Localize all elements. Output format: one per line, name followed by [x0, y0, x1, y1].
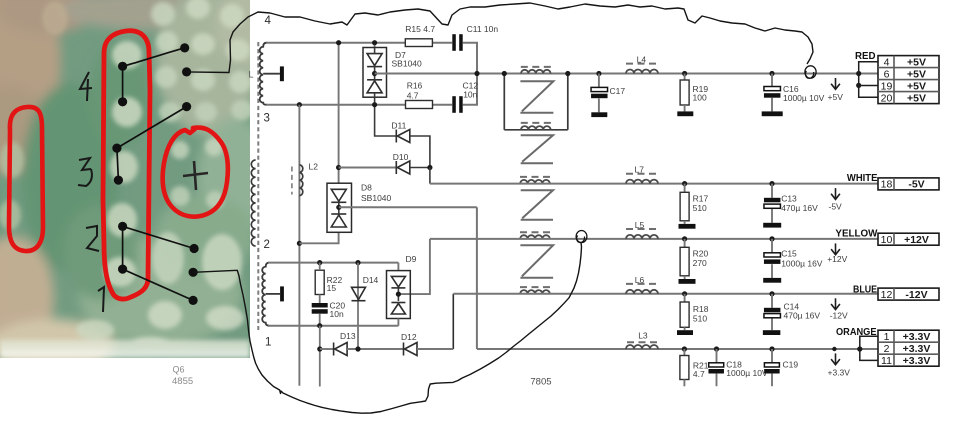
connector table ORANGE +3.3V	[878, 330, 939, 367]
wire C11 to +5V rail	[463, 43, 477, 74]
wire D14 vertical	[357, 263, 359, 349]
diode pair D7 box	[363, 48, 387, 98]
ground C13	[763, 223, 781, 228]
node D10 D11 join	[427, 165, 432, 170]
ground R19	[677, 111, 693, 116]
wire +5V rail	[375, 73, 878, 75]
wire sec4 bottom right (R16 to C12)	[433, 104, 453, 106]
node block left	[502, 71, 507, 76]
node D7 top	[372, 40, 377, 45]
svg-text:+5V: +5V	[907, 68, 926, 80]
capacitor C17	[591, 87, 608, 91]
power flag +12V	[831, 243, 840, 254]
wire L2 vertical	[298, 105, 300, 386]
wire sec4 top	[266, 42, 405, 44]
choke winding block bottom	[521, 126, 551, 130]
wire D9 internal	[397, 289, 399, 302]
wire D9 bottom lead	[397, 319, 399, 326]
wire +3.3V rail	[477, 348, 878, 350]
node D7 center	[372, 71, 377, 76]
svg-text:D10: D10	[393, 152, 409, 162]
svg-text:1000µ 16V: 1000µ 16V	[781, 258, 823, 268]
wire D7 internal	[374, 48, 376, 54]
wire sec2 bottom	[268, 325, 398, 327]
svg-text:4855: 4855	[172, 376, 193, 387]
capacitor C19 (electrolytic)	[764, 363, 779, 367]
freehand pointer ring on +12V rail	[576, 230, 587, 242]
diode D9 top (cathode down)	[391, 276, 405, 288]
core symbol Z1	[520, 81, 553, 113]
inductor L3	[626, 345, 658, 349]
inductor L7	[626, 180, 658, 184]
node R18	[682, 291, 687, 296]
node L2 bottom junction	[297, 241, 302, 246]
capacitor C14 (electrolytic)	[764, 308, 781, 313]
node R19	[682, 71, 687, 76]
red marker: right circled pad	[163, 128, 228, 217]
svg-text:L5: L5	[635, 220, 645, 230]
wire C20 bottom	[319, 314, 321, 326]
diode D11	[396, 130, 410, 143]
node C15	[769, 236, 774, 241]
node D10 tee	[336, 165, 341, 170]
node C19	[769, 346, 774, 351]
node C14	[769, 291, 774, 296]
node R17	[682, 181, 687, 186]
svg-text:11: 11	[881, 355, 892, 367]
svg-text:-5V: -5V	[829, 202, 843, 212]
wire +3.3V feed vertical	[476, 207, 478, 349]
resistor R21	[683, 349, 685, 356]
node D13 anode	[317, 346, 322, 351]
capacitor C20	[312, 303, 328, 308]
ground C15	[763, 278, 781, 283]
capacitor C15 (electrolytic)	[764, 253, 781, 257]
resistor R18	[684, 294, 686, 302]
winding 4 center tap	[263, 73, 280, 75]
svg-text:C19: C19	[783, 359, 799, 369]
wire sec4 top right (R15 to C11)	[432, 42, 452, 44]
svg-text:D13: D13	[340, 331, 356, 341]
core symbol Z4	[520, 245, 553, 277]
resistor R20	[684, 239, 686, 247]
node +5V branch 2	[856, 83, 861, 88]
capacitor C11	[452, 34, 456, 51]
node C17	[596, 71, 601, 76]
svg-text:L6: L6	[635, 275, 645, 285]
svg-text:20: 20	[881, 92, 893, 104]
handwritten digit 2	[86, 226, 99, 251]
wire top to D8 (vertical)	[338, 43, 340, 184]
svg-text:SB1040: SB1040	[361, 193, 392, 203]
wire +3.3V into pins 1 11	[860, 336, 878, 360]
wire D13 left	[320, 348, 334, 350]
svg-text:L4: L4	[637, 55, 647, 65]
black cross mark inside right circle	[183, 161, 208, 190]
svg-text:+12V: +12V	[904, 234, 929, 246]
node block right	[565, 71, 570, 76]
inductor L2	[299, 165, 302, 196]
svg-text:270: 270	[693, 258, 707, 268]
svg-text:4.7: 4.7	[693, 369, 705, 379]
node D13 D12 join	[355, 346, 360, 351]
wire D8 output to +3.3V feed	[339, 206, 477, 208]
handwritten digit 4	[80, 72, 92, 101]
choke winding on -12V rail	[520, 290, 550, 294]
transformer winding section 2-1	[262, 263, 269, 326]
capacitor C17 lead	[598, 74, 600, 88]
power flag +5V	[831, 78, 840, 89]
svg-text:470µ 16V: 470µ 16V	[784, 310, 821, 320]
resistor R19	[684, 74, 686, 81]
handwritten digit 1	[98, 287, 104, 312]
handwritten digit 3	[78, 158, 92, 186]
wire D13 to D12	[347, 348, 403, 350]
diode D14 (cathode down)	[352, 287, 366, 299]
capacitor C15 leads	[771, 239, 773, 253]
choke winding on +5V rail	[521, 70, 551, 74]
red marker: left circled pads	[9, 107, 43, 251]
wire C12 to +5V rail	[463, 74, 477, 105]
diode D12	[404, 343, 418, 356]
inductor L2 core dash	[291, 167, 293, 195]
transformer core (dashed)	[257, 42, 259, 330]
freehand outline from pad to schematic bottom	[193, 242, 581, 413]
svg-text:12: 12	[881, 289, 893, 301]
svg-text:+5V: +5V	[907, 80, 926, 92]
wire -5V rail	[430, 183, 878, 185]
power flag -12V	[831, 298, 840, 309]
core symbol Z2	[521, 135, 553, 163]
svg-text:+3.3V: +3.3V	[903, 355, 931, 367]
svg-text:+5V: +5V	[907, 56, 926, 68]
diode D9 bottom (cathode up)	[391, 303, 405, 315]
svg-text:D14: D14	[363, 275, 379, 285]
node C13	[769, 181, 774, 186]
node +3.3V branch	[857, 346, 862, 351]
wire D9 to +12V rail	[398, 239, 430, 294]
wire D12 to corner	[417, 348, 453, 350]
svg-text:18: 18	[881, 179, 893, 191]
svg-text:R18: R18	[693, 304, 709, 314]
svg-text:4.7: 4.7	[407, 90, 419, 100]
diode D13	[334, 343, 348, 356]
diode D7 bottom (cathode up)	[367, 80, 382, 93]
svg-text:15: 15	[327, 283, 337, 293]
wire D8 internal	[338, 202, 340, 214]
svg-text:510: 510	[693, 314, 707, 324]
node R22 top	[317, 260, 322, 265]
svg-text:10n: 10n	[463, 89, 477, 99]
winding 2 center tap	[266, 293, 280, 295]
svg-text:19: 19	[881, 80, 893, 92]
svg-text:470µ 16V: 470µ 16V	[781, 203, 818, 213]
wire sec4 bottom	[266, 104, 405, 106]
svg-text:2: 2	[264, 239, 270, 251]
svg-text:D8: D8	[361, 182, 372, 192]
node D14 top	[355, 260, 360, 265]
inductor L4	[626, 70, 658, 74]
svg-text:WHITE: WHITE	[847, 172, 878, 184]
svg-text:3: 3	[264, 113, 270, 125]
node D9 center	[396, 292, 401, 297]
svg-text:+5V: +5V	[907, 92, 926, 104]
choke block verticals	[503, 74, 505, 130]
connector table RED +5V	[878, 56, 939, 105]
svg-text:6: 6	[884, 68, 890, 80]
ground C16	[762, 111, 783, 116]
wire to -5V rail	[429, 168, 431, 184]
choke winding on -5V rail	[520, 180, 550, 184]
svg-text:SB1040: SB1040	[392, 58, 423, 68]
svg-text:+3.3V: +3.3V	[903, 331, 931, 343]
wire D10 to corner	[410, 167, 430, 169]
svg-text:L7: L7	[635, 165, 645, 175]
node sec4 bottom to L2	[297, 102, 302, 107]
core symbol Z3	[521, 190, 553, 220]
wire D12 to -12V rail	[452, 294, 454, 349]
solder point dots	[112, 43, 198, 305]
node +3.3V arrow	[832, 347, 836, 351]
power flag -5V	[831, 188, 840, 199]
node C18	[714, 346, 719, 351]
svg-text:D12: D12	[401, 332, 417, 342]
svg-text:C11 10n: C11 10n	[467, 24, 499, 34]
inductor L6	[626, 290, 658, 294]
svg-text:100: 100	[693, 93, 707, 103]
diode D7 top (cathode down)	[367, 54, 382, 67]
svg-text:4: 4	[265, 15, 272, 27]
connector table YELLOW +12V	[878, 233, 939, 246]
node D8 center	[336, 205, 341, 210]
svg-text:+3.3V: +3.3V	[903, 343, 931, 355]
choke block bottom line	[504, 129, 568, 131]
wire D7 top lead	[374, 43, 376, 48]
svg-text:D9: D9	[406, 254, 417, 264]
annotation lines between pads	[117, 48, 194, 301]
resistor R16	[406, 101, 433, 109]
capacitor C16 leads	[771, 74, 773, 87]
node C20 bottom	[317, 323, 322, 328]
svg-text:L: L	[249, 70, 254, 80]
inductor L5	[626, 235, 658, 239]
transformer winding section 4	[260, 43, 267, 105]
ground R17	[679, 224, 696, 229]
svg-text:1: 1	[884, 331, 890, 343]
wire D11 to corner	[410, 136, 430, 168]
node R20	[682, 236, 687, 241]
wire +12V rail	[430, 238, 878, 240]
svg-text:510: 510	[693, 203, 707, 213]
svg-text:-5V: -5V	[908, 179, 924, 191]
ground C17	[591, 112, 607, 117]
svg-text:-12V: -12V	[830, 311, 848, 321]
red marker: center circled pad column	[103, 31, 150, 299]
capacitor C18 leads	[716, 349, 718, 363]
transformer primary winding	[251, 160, 255, 246]
svg-text:YELLOW: YELLOW	[835, 227, 877, 239]
wire D13 tail	[319, 349, 321, 387]
resistor R22	[315, 270, 324, 294]
svg-text:R15 4.7: R15 4.7	[405, 24, 435, 34]
diode D8 bottom (cathode up)	[331, 214, 346, 227]
svg-text:R20: R20	[693, 249, 709, 259]
svg-text:-12V: -12V	[905, 289, 927, 301]
wire C20 to D13	[319, 326, 321, 349]
capacitor C14 leads	[771, 294, 773, 308]
freehand outline from pad to schematic top	[187, 3, 813, 73]
svg-text:D11: D11	[391, 121, 406, 131]
wire D10 anode	[339, 167, 397, 169]
svg-text:10n: 10n	[330, 309, 344, 319]
resistor R15	[405, 39, 432, 47]
svg-text:10: 10	[881, 234, 893, 246]
svg-text:1000µ 10V: 1000µ 10V	[726, 368, 768, 378]
svg-text:BLUE: BLUE	[853, 283, 877, 295]
svg-text:R17: R17	[693, 193, 709, 203]
node sec4 top junction	[336, 40, 341, 45]
node R21	[682, 346, 687, 351]
node C16	[769, 71, 774, 76]
node +5V branch	[856, 71, 861, 76]
svg-text:R16: R16	[407, 80, 423, 90]
svg-text:Q6: Q6	[173, 364, 185, 374]
diode pair D8 box	[327, 183, 352, 232]
diode D10	[396, 161, 410, 174]
connector table BLUE -12V	[878, 288, 939, 301]
svg-text:+5V: +5V	[828, 92, 844, 102]
wire sec2 top	[268, 262, 398, 264]
freehand pointer ring on +5V rail	[805, 66, 816, 79]
resistor R17	[684, 184, 686, 193]
svg-text:1000µ 10V: 1000µ 10V	[783, 93, 825, 103]
svg-text:L3: L3	[638, 331, 648, 341]
wire +5V into pins 19 20	[859, 74, 878, 98]
svg-text:C17: C17	[610, 86, 626, 96]
diode pair D9 box	[387, 271, 411, 319]
wire D9 top lead	[397, 263, 399, 271]
svg-text:7805: 7805	[530, 377, 551, 388]
connector table WHITE -5V	[878, 178, 939, 191]
svg-text:+3.3V: +3.3V	[828, 367, 851, 377]
power flag +3.3V	[831, 353, 840, 364]
wire L2 to D8 bottom	[299, 232, 338, 243]
svg-text:C13: C13	[781, 193, 797, 203]
capacitor C16 (electrolytic)	[764, 87, 781, 91]
node D7 bottom	[372, 102, 377, 107]
node C11 C12 join	[474, 71, 479, 76]
ground R20	[679, 279, 696, 284]
ground C14	[763, 330, 781, 335]
wire D7 bottom to D11	[375, 97, 397, 136]
svg-text:1: 1	[265, 337, 271, 349]
svg-text:L2: L2	[309, 162, 319, 172]
svg-text:C15: C15	[781, 249, 797, 259]
capacitor C13 leads	[771, 184, 773, 198]
svg-text:4: 4	[884, 56, 890, 68]
capacitor C13 (electrolytic)	[764, 198, 781, 203]
svg-text:+12V: +12V	[827, 254, 847, 264]
capacitor C12	[452, 96, 456, 113]
wire -12V rail	[453, 293, 878, 295]
capacitor C19 leads	[771, 349, 773, 363]
capacitor C18 (electrolytic)	[709, 363, 724, 367]
choke winding on +12V rail	[520, 235, 550, 239]
svg-text:2: 2	[884, 343, 890, 355]
wire +5V into pin 4	[859, 62, 878, 74]
svg-text:RED: RED	[855, 50, 876, 62]
ground R18	[677, 330, 693, 335]
diode D8 top (cathode down)	[331, 189, 346, 202]
